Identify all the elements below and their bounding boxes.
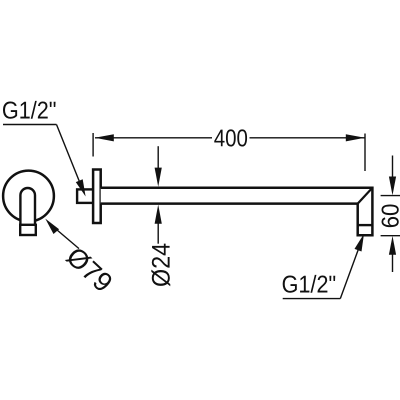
arm end-on slot (front view) — [20, 188, 35, 225]
dim 60 bottom extension line — [381, 235, 400, 237]
dim 60 text (rotated) — [382, 204, 399, 227]
dim 60 upper arrow — [389, 177, 396, 196]
dim Ø24 lower line — [157, 223, 159, 244]
dim O24 text (rotated) — [151, 244, 170, 287]
label O79 text (rotated 44deg) — [65, 245, 114, 293]
outlet nut front view rect — [20, 225, 36, 235]
dim 400 right arrow — [346, 134, 365, 141]
dim Ø24 upper arrow line — [157, 146, 159, 169]
label G1/2 outlet arrow — [355, 234, 365, 252]
label G1/2 inlet underline — [3, 124, 57, 126]
dim 400 left extension line — [92, 133, 94, 157]
dim 400 text — [214, 129, 247, 146]
label G1/2 inlet arrow — [76, 179, 86, 196]
dim Ø24 lower arrow — [155, 205, 162, 224]
label G1/2 inlet leader — [57, 125, 83, 189]
dim 400 line right segment — [250, 137, 365, 139]
bend line — [358, 188, 373, 204]
dim 400 left arrow — [95, 134, 114, 141]
label G1/2 outlet text — [283, 275, 336, 293]
label G1/2 outlet underline — [283, 298, 341, 300]
wall flange side view — [93, 170, 101, 224]
dim 60 top extension line — [381, 195, 400, 197]
dim 60 lower line — [392, 254, 394, 273]
outlet connector separator — [358, 224, 373, 226]
dim 400 line left segment — [95, 137, 212, 139]
label Ø79 arrow — [45, 219, 59, 234]
wall nipple G1/2 (side view) — [77, 189, 93, 203]
dim 60 upper line — [392, 156, 394, 179]
label G1/2 outlet leader — [340, 244, 360, 299]
label G1/2 inlet text — [3, 101, 56, 119]
dim 400 right extension line — [364, 134, 366, 172]
flange front view circle Ø79 — [3, 171, 54, 222]
label Ø79 leader — [50, 224, 79, 249]
dim Ø24 upper arrow — [155, 168, 162, 187]
dim 60 lower arrow — [389, 236, 396, 255]
shower arm tube outline — [101, 188, 373, 236]
